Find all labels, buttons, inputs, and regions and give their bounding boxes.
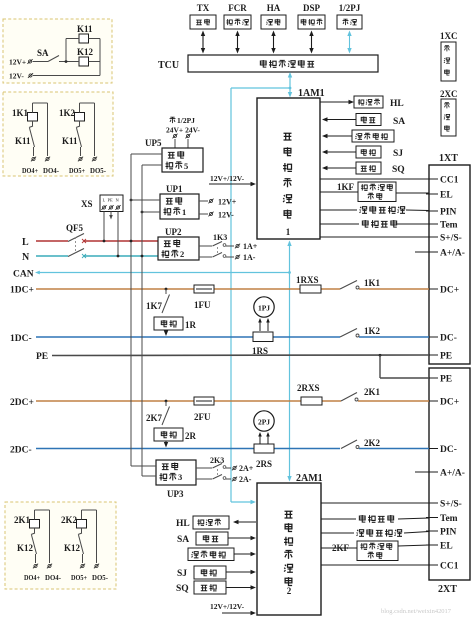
terminal 1XT A+/A-	[426, 251, 438, 253]
svg-text:HL: HL	[390, 99, 404, 109]
wire 1DC- bus	[36, 336, 429, 338]
label 1FU	[194, 300, 211, 310]
terminal 1XT DC+	[426, 288, 438, 290]
svg-text:12V+: 12V+	[218, 198, 237, 207]
contact 1K3 row2	[199, 253, 234, 258]
wire 12V into 2AM1	[222, 611, 256, 615]
vertical feeder N	[141, 165, 144, 476]
svg-text:2K1: 2K1	[14, 515, 31, 525]
x contact QF5 L	[82, 239, 86, 243]
label HL (2)	[176, 519, 190, 529]
wire 12V+ to SA	[33, 61, 49, 63]
meter 2PJ	[254, 411, 274, 431]
dashed tie 1K3	[217, 247, 219, 253]
svg-text:24V+ 24V-: 24V+ 24V-	[166, 126, 200, 135]
connector 24V+	[172, 134, 177, 139]
svg-text:CC1: CC1	[440, 176, 459, 186]
wire 2R to 2DC-	[164, 441, 168, 448]
svg-text:DO5+: DO5+	[69, 167, 85, 175]
svg-text:PE: PE	[440, 375, 452, 385]
text temperature sampling (1)	[362, 220, 396, 228]
wire 2DC+ bus	[36, 400, 429, 402]
box HA peripheral	[261, 15, 286, 29]
svg-text:DC-: DC-	[440, 445, 457, 455]
wire 1K1 top loop	[32, 103, 34, 113]
label 1XT	[439, 153, 458, 164]
svg-text:DO5-: DO5-	[90, 167, 107, 175]
svg-text:SA: SA	[393, 117, 405, 127]
svg-text:DO4-: DO4-	[45, 574, 62, 582]
svg-text:1PJ: 1PJ	[258, 304, 270, 313]
box switching power supply 5	[162, 148, 203, 172]
label 1K1	[364, 278, 381, 288]
contact 2K2	[341, 440, 359, 449]
label SJ (2)	[177, 569, 187, 579]
connector 12V- (UP1)	[208, 212, 213, 217]
dashed enclosure (pilot relay box 1)	[3, 19, 112, 83]
breaker QF5 blade N	[68, 249, 84, 257]
terminal DO5-	[94, 564, 99, 569]
terminal 2XT S+/S-	[426, 502, 438, 504]
svg-text:1K2: 1K2	[59, 108, 76, 118]
box gun seat status (2)	[188, 548, 234, 561]
terminal 2XT DC-	[426, 448, 438, 450]
svg-text:2: 2	[180, 249, 184, 259]
label 12V+ (UP1)	[218, 198, 237, 207]
terminal DO5+	[78, 157, 83, 162]
label 12V-	[9, 72, 24, 81]
svg-text:1A+: 1A+	[243, 242, 258, 251]
label TCU	[158, 60, 179, 71]
box gun seat status (1)	[352, 130, 394, 142]
label K11	[77, 24, 93, 34]
svg-text:SJ: SJ	[393, 149, 403, 159]
svg-text:2DC-: 2DC-	[10, 446, 32, 456]
svg-text:SJ: SJ	[177, 569, 187, 579]
svg-text:1: 1	[286, 227, 291, 237]
svg-text:UP3: UP3	[167, 489, 184, 499]
wire N bus	[36, 255, 158, 257]
wire S+/S- (1)	[320, 236, 429, 238]
terminal DO5-	[92, 157, 97, 162]
terminal 2XT CC1	[426, 564, 438, 566]
box 2AM1 charging main control module 2	[257, 483, 321, 615]
wire temperature sampling (2)	[321, 518, 429, 519]
svg-text:PIN: PIN	[440, 208, 457, 218]
svg-text:2XC: 2XC	[440, 89, 458, 99]
label 2RS	[256, 459, 272, 469]
svg-text:1RXS: 1RXS	[296, 275, 319, 285]
svg-text:2DC+: 2DC+	[10, 398, 34, 408]
label SA(1)	[393, 117, 405, 127]
svg-text:1DC+: 1DC+	[10, 286, 34, 296]
connector 24V-	[185, 134, 190, 139]
svg-text:blog.csdn.net/weixin42017: blog.csdn.net/weixin42017	[381, 608, 451, 615]
node 2K7 tap	[165, 400, 168, 403]
contact 1K1	[340, 281, 359, 290]
svg-text:DO4+: DO4+	[24, 574, 40, 582]
svg-text:FCR: FCR	[228, 3, 247, 13]
connector 12V+	[27, 59, 32, 64]
svg-text:2RS: 2RS	[256, 459, 272, 469]
svg-text:2K1: 2K1	[364, 387, 381, 397]
wire 2RS-2PJ arrows	[258, 432, 270, 444]
relay coil 1K2	[75, 113, 85, 122]
svg-text:2: 2	[287, 586, 292, 596]
fuse 2FU	[194, 397, 214, 405]
wire A+/A- stub (1)	[415, 251, 429, 253]
wire UP3 input L	[131, 465, 156, 467]
wire 2K1 top loop	[34, 510, 36, 520]
label 1RS	[252, 346, 268, 356]
terminal 1XT DC-	[426, 336, 438, 338]
dashed enclosure (relay output box 2)	[3, 92, 113, 176]
label 2FU	[194, 412, 211, 422]
label TX	[197, 3, 210, 13]
label 2XC	[440, 89, 458, 99]
label 2DC-	[10, 446, 32, 456]
svg-text:1XC: 1XC	[440, 31, 458, 41]
svg-text:DC-: DC-	[440, 334, 457, 344]
svg-text:1K1: 1K1	[364, 278, 381, 288]
svg-text:EL: EL	[440, 191, 453, 201]
box 1/2PJ peripheral	[337, 15, 362, 29]
label 2K2	[364, 438, 381, 448]
svg-text:2R: 2R	[185, 431, 197, 441]
label SJ	[393, 149, 403, 159]
label 2K3	[210, 456, 224, 465]
svg-text:K12: K12	[17, 543, 34, 553]
wire SA to K12	[59, 61, 79, 63]
wire CC1 (2)	[321, 564, 429, 566]
contact 2K3 row2	[196, 475, 231, 480]
svg-text:3: 3	[178, 472, 182, 482]
svg-text:PIN: PIN	[440, 528, 457, 538]
label SQ	[392, 165, 405, 175]
terminal 2XT PIN	[426, 530, 438, 532]
wire XS L down	[103, 212, 106, 243]
label 12V+/12V- (2)	[210, 602, 245, 611]
connector 2A-	[232, 477, 237, 482]
contact 2K3 row1	[196, 464, 231, 469]
wire cyan vertical bus (to 2AM1)	[230, 88, 232, 502]
wire 2K2 top loop	[81, 510, 83, 520]
node CAN junction	[288, 271, 291, 274]
wire XS N down	[117, 212, 120, 258]
svg-text:1DC-: 1DC-	[10, 334, 32, 344]
label XS	[81, 199, 93, 209]
label 1A+	[243, 242, 258, 251]
label K12	[77, 47, 94, 57]
label 2KF	[332, 543, 350, 553]
wire UP5 input L	[131, 153, 162, 155]
watermark	[381, 608, 451, 615]
wire CAN bus	[35, 271, 290, 275]
svg-text:XS: XS	[81, 199, 93, 209]
svg-text:A+/A-: A+/A-	[440, 249, 465, 259]
connector 12V+ (UP1)	[208, 199, 213, 204]
wire UP5 outputs	[175, 139, 188, 148]
terminal DO4+	[33, 564, 38, 569]
svg-text:1R: 1R	[185, 320, 197, 330]
svg-text:SA: SA	[177, 535, 189, 545]
relay coil K11	[79, 34, 89, 43]
terminal 1XT EL	[426, 193, 438, 195]
relay coil 2K1	[30, 520, 40, 529]
label SQ (2)	[176, 584, 189, 594]
wire SJ in (2)	[226, 570, 256, 574]
fuse 1FU	[194, 285, 214, 293]
svg-text:HA: HA	[267, 3, 281, 13]
node PE junction	[379, 354, 382, 357]
box 1XC socket	[441, 42, 456, 81]
svg-text:1FU: 1FU	[194, 300, 211, 310]
label 1KF	[337, 182, 355, 192]
contact K11	[79, 121, 81, 126]
box emergency stop (2)	[196, 532, 228, 545]
label 2A+	[239, 464, 254, 473]
wire 1DC+ bus	[36, 288, 429, 290]
svg-text:12V+/12V-: 12V+/12V-	[210, 174, 245, 183]
label 1DC-	[10, 334, 32, 344]
label 1K3	[213, 233, 227, 242]
wire 12V supply into 1AM1	[209, 182, 256, 186]
svg-text:12V-: 12V-	[9, 72, 24, 81]
svg-text:1: 1	[182, 207, 186, 217]
contact 1K3 row1	[199, 242, 234, 247]
svg-text:A+/A-: A+/A-	[440, 469, 465, 479]
relay coil 2K2	[77, 520, 87, 529]
wire HL out (2)	[233, 520, 256, 524]
box terminal block 2XT	[426, 368, 470, 580]
label 1A-	[243, 253, 256, 262]
relay coil K12	[79, 57, 89, 66]
svg-text:UP1: UP1	[166, 184, 183, 194]
wire S+/S- (2)	[321, 502, 429, 504]
wire K11 right	[89, 38, 101, 40]
svg-text:12V+/12V-: 12V+/12V-	[210, 602, 245, 611]
svg-text:2PJ: 2PJ	[258, 418, 270, 427]
label PE	[36, 352, 48, 362]
svg-text:EL: EL	[440, 542, 453, 552]
svg-text:K11: K11	[77, 24, 93, 34]
svg-text:2K2: 2K2	[61, 515, 78, 525]
svg-text:1/2PJ: 1/2PJ	[177, 116, 195, 125]
svg-text:CC1: CC1	[440, 562, 459, 572]
label CAN	[13, 270, 34, 280]
wire UP3 input N	[142, 475, 156, 477]
switch SA blade	[48, 56, 59, 62]
wire TCU-1AM1 CAN (double arrow)	[288, 72, 292, 98]
wire CAN inter-module link	[287, 241, 291, 482]
box bleeder resistor 1R	[154, 317, 183, 330]
svg-text:K11: K11	[15, 136, 31, 146]
label SA (2)	[177, 535, 189, 545]
wire A+/A- stub (2)	[415, 471, 429, 473]
label 2RXS	[297, 383, 320, 393]
wire PE bus	[52, 354, 429, 357]
x contact QF5 N	[82, 254, 86, 258]
box TX peripheral	[190, 15, 216, 29]
svg-text:1KF: 1KF	[337, 182, 355, 192]
svg-text:N: N	[22, 252, 30, 263]
wire double arrow HA-TCU	[271, 31, 275, 54]
node cyan junction	[289, 87, 292, 90]
label 2AM1	[296, 473, 323, 484]
dashed enclosure (relay output box 3)	[5, 502, 116, 589]
contact 1K7	[162, 289, 170, 313]
wire gun seat status (1)	[322, 134, 352, 138]
svg-text:5: 5	[184, 161, 188, 171]
label 1K2	[364, 326, 381, 336]
connector 12V-	[28, 73, 33, 78]
terminal 1XT Tem	[426, 223, 438, 225]
box XS plug	[100, 195, 123, 212]
svg-text:2A+: 2A+	[239, 464, 254, 473]
box FCR peripheral	[224, 15, 251, 29]
label 2XT	[438, 584, 457, 595]
label 2K1	[364, 387, 381, 397]
label 1K7	[146, 301, 163, 311]
label 12V+/12V- (1)	[210, 174, 245, 183]
svg-text:DO5+: DO5+	[71, 574, 87, 582]
svg-text:SQ: SQ	[392, 165, 405, 175]
relay coil 1K1	[28, 113, 38, 122]
svg-text:K11: K11	[62, 136, 78, 146]
label N	[22, 252, 30, 263]
svg-text:UP5: UP5	[145, 138, 162, 148]
svg-text:HL: HL	[176, 519, 190, 529]
svg-text:Tem: Tem	[440, 221, 458, 231]
terminal 2XT A+/A-	[426, 471, 438, 473]
box water lock (2)	[194, 566, 226, 579]
box TCU billing control unit	[188, 55, 378, 72]
wire TCU branch left	[231, 87, 290, 89]
box indicator lamp (2)	[193, 516, 229, 529]
label L	[22, 237, 29, 248]
label UP5	[145, 138, 162, 148]
label 2K7	[146, 413, 163, 423]
svg-text:12V-: 12V-	[218, 211, 234, 220]
label 2R	[185, 431, 197, 441]
label 12V- (UP1)	[218, 211, 234, 220]
wire UP1 out 12V-	[199, 213, 208, 215]
node 1K7 tap	[165, 288, 168, 291]
wire L bus	[36, 240, 158, 242]
terminal 2XT PE	[426, 377, 438, 379]
box terminal block 1XT	[426, 165, 470, 364]
svg-text:TCU: TCU	[158, 60, 179, 71]
svg-text:PE: PE	[440, 352, 452, 362]
wire cyan into 2AM1	[231, 500, 256, 504]
box door lock (1)	[356, 162, 381, 174]
svg-text:PE: PE	[36, 352, 48, 362]
label 2A-	[239, 475, 252, 484]
shunt 1RS	[253, 332, 273, 342]
connector 1A+	[235, 244, 240, 249]
label 1/2PJ	[339, 3, 361, 13]
svg-text:DO4-: DO4-	[43, 167, 60, 175]
box electronic lock interface board 2KF	[357, 541, 398, 561]
label SA	[37, 48, 49, 58]
vertical feeder L	[130, 154, 133, 466]
wire UP1 out 12V+	[199, 200, 208, 202]
label FCR	[228, 3, 247, 13]
wire module-2KF	[321, 547, 357, 549]
svg-text:2A-: 2A-	[239, 475, 252, 484]
svg-text:S+/S-: S+/S-	[440, 234, 462, 244]
wire temperature sampling (1)	[320, 223, 429, 225]
label 1RXS	[296, 275, 319, 285]
wire gun seat status (2)	[234, 552, 256, 556]
svg-text:2K2: 2K2	[364, 438, 381, 448]
svg-text:SA: SA	[37, 48, 49, 58]
terminal 2XT DC+	[426, 400, 438, 402]
svg-text:1K2: 1K2	[364, 326, 381, 336]
wire 1R to 1DC-	[164, 330, 168, 336]
label UP1	[166, 184, 183, 194]
label 1XC	[440, 31, 458, 41]
contact 1K2	[340, 329, 359, 338]
box emergency stop (1)	[356, 114, 381, 126]
label UP2	[165, 227, 182, 237]
box switching power supply 1	[160, 194, 199, 219]
contact 2K1	[341, 393, 358, 402]
shunt box 1RXS	[300, 285, 321, 293]
wire UP1 input L	[130, 199, 160, 202]
wire double arrow DSP-TCU	[309, 31, 313, 54]
box DSP peripheral	[298, 15, 325, 29]
box indicator lamp (1)	[354, 96, 383, 108]
svg-text:Tem: Tem	[440, 514, 458, 524]
wire UP5 input N	[142, 164, 162, 166]
label 12V+	[9, 58, 26, 67]
contact K12	[81, 528, 83, 533]
node junction	[65, 60, 68, 63]
shunt box 2RXS	[301, 397, 322, 405]
label UP3	[167, 489, 184, 499]
wire 1RS-1PJ arrows	[258, 318, 270, 331]
svg-text:2RXS: 2RXS	[297, 383, 320, 393]
contact 2K7	[162, 401, 170, 425]
box water lock (1)	[356, 146, 381, 158]
label 1R	[185, 320, 197, 330]
wire module CC1 to 1XT	[320, 178, 429, 180]
label 1DC+	[10, 286, 34, 296]
text temperature sampling (2)	[359, 515, 393, 523]
wire branch up to K11	[66, 39, 79, 62]
wire SA in	[322, 117, 356, 121]
svg-text:K12: K12	[77, 47, 94, 57]
svg-text:1K7: 1K7	[146, 301, 163, 311]
box bleeder resistor 2R	[154, 428, 183, 441]
svg-text:2K3: 2K3	[210, 456, 224, 465]
label 1AM1	[298, 88, 325, 99]
shunt 2RS	[254, 444, 274, 453]
wire SQ in (2)	[226, 585, 256, 589]
terminal 1XT S+/S-	[426, 236, 438, 238]
label to 1/2PJ 24V	[166, 116, 200, 135]
svg-text:2FU: 2FU	[194, 412, 211, 422]
terminal 2XT Tem	[426, 517, 438, 519]
svg-text:UP2: UP2	[165, 227, 182, 237]
terminal DO5+	[80, 564, 85, 569]
terminal 1XT PE	[426, 354, 438, 356]
terminal 1XT PIN	[426, 210, 438, 212]
wire double arrow TX-TCU	[201, 31, 205, 54]
wire K12 right	[89, 61, 101, 63]
svg-text:TX: TX	[197, 3, 210, 13]
